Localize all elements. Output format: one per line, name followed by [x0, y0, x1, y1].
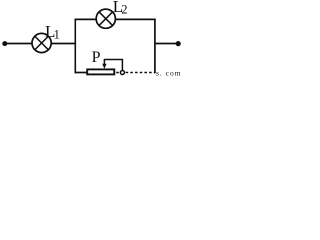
- wiper arrow head: [102, 64, 106, 69]
- lamp L2: [96, 9, 115, 28]
- wire right vertical branch: [154, 19, 156, 74]
- wire left vertical branch: [74, 19, 76, 74]
- svg-text:P: P: [92, 49, 101, 66]
- wire left terminal to lamp L1: [5, 43, 32, 45]
- node right terminal: [176, 41, 181, 46]
- wire bottom branch solid segment: [75, 72, 87, 74]
- wire output to right terminal: [155, 43, 177, 45]
- lamp L1: [32, 33, 51, 52]
- wire lamp L1 to left junction: [52, 43, 77, 45]
- wiper terminal open circle: [120, 71, 124, 75]
- wiper wire of rheostat: [104, 60, 122, 71]
- svg-text:2: 2: [121, 3, 127, 17]
- node left terminal: [2, 41, 7, 46]
- wire dashed bottom segment: [116, 72, 154, 74]
- wire top branch left segment: [75, 18, 97, 20]
- svg-text:1: 1: [54, 28, 60, 42]
- resistor P body: [87, 69, 114, 74]
- svg-text:s. com: s. com: [156, 69, 182, 77]
- wire top branch right segment: [115, 18, 156, 20]
